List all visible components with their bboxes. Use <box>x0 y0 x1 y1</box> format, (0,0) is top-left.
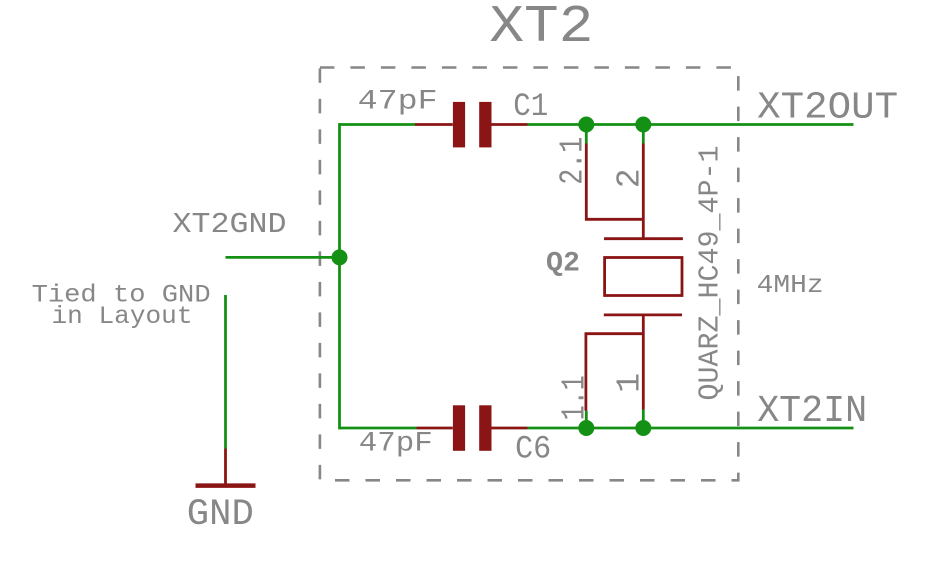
wire green stub pin 2.1 <box>585 125 588 144</box>
capacitor C6 right lead <box>492 427 528 430</box>
junction top-left on XT2OUT <box>578 117 594 133</box>
wire green stub pin 1 <box>642 410 645 429</box>
wire net XT2IN bottom horizontal green <box>340 427 417 430</box>
svg-text:47pF: 47pF <box>358 87 438 118</box>
svg-text:1.1: 1.1 <box>556 375 593 420</box>
wire left vertical green (XT2GND net) <box>338 123 341 429</box>
svg-text:C1: C1 <box>513 88 548 125</box>
wire net XT2OUT top horizontal green <box>340 123 416 126</box>
wire net XT2IN from C6 to right <box>528 427 854 430</box>
ground symbol GND bar <box>196 483 256 488</box>
junction on XT2GND <box>332 249 348 265</box>
svg-text:2: 2 <box>611 168 648 188</box>
ground symbol GND red stem <box>224 449 227 485</box>
crystal Q2 bottom plate <box>604 313 682 316</box>
crystal Q2 pin 1 lead <box>642 315 645 410</box>
capacitor C1 plates <box>453 102 465 147</box>
svg-text:XT2OUT: XT2OUT <box>757 86 898 129</box>
junction bottom-left on XT2IN <box>578 420 594 436</box>
crystal Q2 pin 2 lead <box>642 144 645 239</box>
svg-text:XT2GND: XT2GND <box>173 208 287 241</box>
junction top-right on XT2OUT <box>635 117 651 133</box>
svg-text:C6: C6 <box>515 431 551 468</box>
svg-text:4MHz: 4MHz <box>757 270 824 300</box>
svg-text:Q2: Q2 <box>546 249 580 280</box>
crystal Q2 pin 1.1 lead <box>586 334 643 411</box>
svg-text:XT2: XT2 <box>489 0 593 57</box>
capacitor C6 plates <box>453 405 465 451</box>
wire green stub pin 1.1 <box>585 411 588 428</box>
wire net XT2OUT from C1 to right <box>528 123 854 126</box>
capacitor C1 right lead <box>492 123 528 126</box>
capacitor C6 left lead <box>417 427 453 430</box>
svg-text:XT2IN: XT2IN <box>757 390 867 433</box>
wire green stub pin 2 <box>642 125 645 144</box>
crystal Q2 top plate <box>604 237 683 240</box>
svg-text:QUARZ_HC49_4P-1: QUARZ_HC49_4P-1 <box>694 146 727 401</box>
svg-text:in Layout: in Layout <box>52 302 193 331</box>
frame XT2 dashed boundary <box>320 68 738 481</box>
crystal Q2 body <box>605 258 682 296</box>
svg-text:1: 1 <box>612 373 649 393</box>
capacitor C1 left lead <box>415 123 453 126</box>
wire GND stub vertical green <box>224 295 227 449</box>
junction bottom-right on XT2IN <box>635 420 651 436</box>
svg-text:GND: GND <box>187 494 254 536</box>
svg-text:47pF: 47pF <box>359 429 433 460</box>
wire XT2GND stub horizontal <box>226 256 340 259</box>
crystal Q2 pin 2.1 lead <box>586 144 643 220</box>
svg-text:2.1: 2.1 <box>554 137 591 185</box>
